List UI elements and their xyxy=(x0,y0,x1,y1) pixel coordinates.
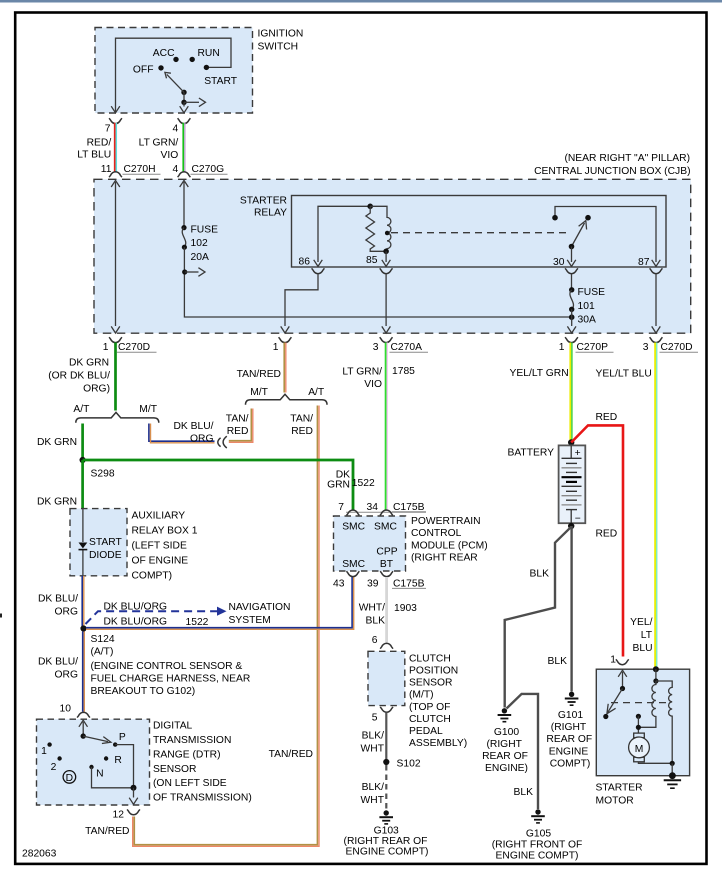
connector C270P exit xyxy=(565,337,578,342)
svg-text:WHT/: WHT/ xyxy=(359,603,385,614)
node solenoid contact xyxy=(620,686,625,691)
wire through aux box xyxy=(82,509,84,576)
inductor relay coil winding xyxy=(370,206,391,251)
svg-text:1522: 1522 xyxy=(186,617,209,628)
svg-text:SENSOR: SENSOR xyxy=(409,678,453,689)
svg-text:IGNITION: IGNITION xyxy=(258,29,304,40)
svg-text:ENGINE COMPT): ENGINE COMPT) xyxy=(346,846,429,857)
svg-text:(ENGINE CONTROL SENSOR &: (ENGINE CONTROL SENSOR & xyxy=(91,661,243,672)
wire DK GRN C270D to brace xyxy=(114,343,117,411)
node battery positive xyxy=(568,439,574,445)
svg-text:RED: RED xyxy=(227,426,249,437)
svg-text:1: 1 xyxy=(103,342,109,353)
svg-text:(LEFT SIDE: (LEFT SIDE xyxy=(132,541,187,552)
wire relay 85 to CJB exit xyxy=(385,274,387,326)
svg-text:C270A: C270A xyxy=(391,342,423,353)
dashed wire to navigation system xyxy=(86,611,218,624)
svg-text:AUXILIARY: AUXILIARY xyxy=(132,510,186,521)
svg-text:TAN/: TAN/ xyxy=(226,413,249,424)
svg-text:STARTER: STARTER xyxy=(240,196,287,207)
wire motor to ground bus xyxy=(638,762,672,764)
node relay fixed contact xyxy=(552,215,558,221)
svg-text:OFF: OFF xyxy=(133,64,154,75)
svg-text:DK BLU/ORG: DK BLU/ORG xyxy=(104,602,168,613)
svg-text:FUSE: FUSE xyxy=(578,287,606,298)
node DTR 2 contact xyxy=(57,756,61,760)
svg-text:101: 101 xyxy=(578,301,595,312)
svg-text:CPP: CPP xyxy=(376,547,397,558)
ground starter case xyxy=(669,772,676,779)
brace A/T-M/T split left xyxy=(76,412,159,422)
wire YEL/LT BLU C270D to starter motor xyxy=(655,343,657,669)
PCM box xyxy=(346,511,426,513)
svg-text:VIO: VIO xyxy=(364,379,382,390)
wire fuse 102 output xyxy=(184,247,571,317)
svg-text:DK BLU/: DK BLU/ xyxy=(38,594,78,605)
wire relay pin 30 xyxy=(571,247,573,263)
svg-text:3: 3 xyxy=(373,342,379,353)
svg-text:ORG): ORG) xyxy=(83,383,110,394)
node battery negative xyxy=(568,523,574,529)
svg-text:ENGINE): ENGINE) xyxy=(485,763,528,774)
svg-text:DK GRN: DK GRN xyxy=(37,497,77,508)
svg-text:1: 1 xyxy=(559,342,565,353)
relay switch lever xyxy=(572,223,585,247)
svg-text:12: 12 xyxy=(113,810,125,821)
svg-text:C175B: C175B xyxy=(393,502,425,513)
wire BLK battery to G100 xyxy=(505,527,572,708)
svg-text:1903: 1903 xyxy=(394,603,417,614)
svg-text:(TOP OF: (TOP OF xyxy=(409,702,450,713)
svg-text:DIGITAL: DIGITAL xyxy=(153,721,193,732)
wire RED/LT BLU ignition to CJB xyxy=(115,123,117,172)
svg-text:A/T: A/T xyxy=(73,404,90,415)
svg-text:BT: BT xyxy=(380,559,394,570)
svg-text:STARTER: STARTER xyxy=(596,782,643,793)
wire LT GRN/VIO C270A to PCM pin 34 xyxy=(386,343,388,511)
svg-text:SWITCH: SWITCH xyxy=(258,42,299,53)
wire ignition exit pin 7 xyxy=(183,102,185,106)
svg-text:RED: RED xyxy=(291,426,313,437)
svg-text:LT BLU: LT BLU xyxy=(77,149,111,160)
inductor pull-in winding xyxy=(639,681,656,727)
svg-text:(RIGHT: (RIGHT xyxy=(486,739,522,750)
wire RED battery to starter pin 1 xyxy=(571,425,623,656)
ground G100 xyxy=(498,708,512,722)
wire DK GRN S298 down xyxy=(81,460,84,509)
fuse F102 xyxy=(181,225,186,230)
svg-text:D: D xyxy=(66,773,73,784)
wire DK BLU/ORG M/T branch xyxy=(149,424,215,443)
wire DTR entry xyxy=(79,720,88,727)
wire TAN/RED A/T branch to DTR pin 12 xyxy=(133,406,319,847)
connector cup below ignition pin 4 xyxy=(178,118,191,123)
node motor terminal xyxy=(636,714,641,719)
svg-text:REAR OF: REAR OF xyxy=(546,734,592,745)
svg-text:(RIGHT REAR: (RIGHT REAR xyxy=(411,553,478,564)
svg-text:C270H: C270H xyxy=(124,164,156,175)
svg-text:LT GRN/: LT GRN/ xyxy=(342,366,382,377)
svg-text:DK BLU/ORG: DK BLU/ORG xyxy=(104,617,168,628)
svg-text:1522: 1522 xyxy=(352,478,375,489)
wire DK BLU/ORG S124 to PCM pin 43 xyxy=(86,576,354,629)
svg-text:BLK: BLK xyxy=(514,787,534,798)
svg-text:G103: G103 xyxy=(374,825,399,836)
wire DK BLU/ORG S124 to DTR pin 10 xyxy=(83,632,85,712)
svg-text:(RIGHT FRONT OF: (RIGHT FRONT OF xyxy=(492,839,583,850)
svg-text:SMC: SMC xyxy=(342,522,365,533)
svg-text:DK GRN: DK GRN xyxy=(69,357,109,368)
svg-text:34: 34 xyxy=(367,502,379,513)
ground G103 xyxy=(379,810,393,824)
svg-text:VIO: VIO xyxy=(161,150,179,161)
svg-text:RED: RED xyxy=(596,412,618,423)
wire relay pin 85 xyxy=(385,251,387,262)
node DTR D contact circled xyxy=(63,771,76,784)
node S102 xyxy=(383,759,389,765)
svg-text:(NEAR RIGHT "A" PILLAR): (NEAR RIGHT "A" PILLAR) xyxy=(564,153,690,164)
svg-text:RELAY: RELAY xyxy=(254,208,287,219)
wire DTR N to output xyxy=(92,767,134,788)
svg-text:WHT: WHT xyxy=(361,795,385,806)
svg-text:M/T: M/T xyxy=(250,387,268,398)
svg-text:30: 30 xyxy=(553,257,565,268)
svg-text:ENGINE COMPT): ENGINE COMPT) xyxy=(496,850,579,861)
svg-text:+: + xyxy=(575,448,581,459)
svg-text:20A: 20A xyxy=(191,252,209,263)
node ACC contact xyxy=(173,57,178,62)
svg-text:RUN: RUN xyxy=(198,48,220,59)
svg-text:(M/T): (M/T) xyxy=(409,690,434,701)
svg-text:BLK/: BLK/ xyxy=(362,731,384,742)
solenoid switch lever xyxy=(608,689,623,713)
svg-text:10: 10 xyxy=(60,704,72,715)
ignition switch lever SW1 xyxy=(181,90,186,95)
svg-text:DK GRN: DK GRN xyxy=(37,437,77,448)
connector C270A exit xyxy=(380,337,393,342)
wire lever common xyxy=(183,92,185,102)
svg-text:11: 11 xyxy=(101,164,112,175)
node fuse101 junction xyxy=(569,314,575,320)
svg-text:(ON LEFT SIDE: (ON LEFT SIDE xyxy=(153,778,227,789)
svg-text:ORG: ORG xyxy=(55,670,78,681)
svg-text:TAN/RED: TAN/RED xyxy=(237,369,281,380)
svg-text:C270P: C270P xyxy=(577,342,609,353)
wire relay 86 to CJB exit xyxy=(285,274,318,326)
svg-text:MOTOR: MOTOR xyxy=(596,795,634,806)
wire solenoid feed xyxy=(655,669,657,681)
wire CJB entry from C270H xyxy=(111,180,120,187)
ground G101 xyxy=(565,692,579,706)
node START contact xyxy=(204,65,209,70)
svg-text:39: 39 xyxy=(367,578,379,589)
wire relay 87 to CJB exit xyxy=(655,274,657,326)
svg-text:1: 1 xyxy=(273,342,279,353)
svg-text:43: 43 xyxy=(333,578,345,589)
connector C270D right exit xyxy=(650,337,663,342)
battery xyxy=(559,445,586,523)
DTR sensor box xyxy=(37,719,150,805)
svg-text:G100: G100 xyxy=(494,727,519,738)
motor M1 xyxy=(629,737,650,758)
node solenoid feed on box edge xyxy=(653,666,659,672)
svg-text:POWERTRAIN: POWERTRAIN xyxy=(411,516,481,527)
node RUN contact xyxy=(190,57,195,62)
svg-text:S298: S298 xyxy=(91,468,115,479)
svg-text:1: 1 xyxy=(610,655,616,666)
inductor hold-in winding xyxy=(656,681,672,763)
wire LT GRN/VIO ignition to CJB xyxy=(183,123,185,172)
top blue bar xyxy=(0,0,722,3)
svg-text:POSITION: POSITION xyxy=(409,666,458,677)
node S124 xyxy=(80,625,86,631)
svg-text:7: 7 xyxy=(338,502,344,513)
svg-text:CLUTCH: CLUTCH xyxy=(409,653,451,664)
connector C270D left exit xyxy=(109,337,122,342)
wire relay pin 86 riser xyxy=(318,206,370,262)
svg-text:OF TRANSMISSION): OF TRANSMISSION) xyxy=(153,793,252,804)
svg-text:C270D: C270D xyxy=(661,342,693,353)
svg-text:SENSOR: SENSOR xyxy=(153,764,197,775)
svg-text:(RIGHT: (RIGHT xyxy=(551,722,587,733)
connector exit 1 (tan) xyxy=(279,337,292,342)
wire TAN/RED exit 1 to brace xyxy=(284,343,286,393)
svg-text:DIODE: DIODE xyxy=(89,550,122,561)
svg-text:RANGE (DTR): RANGE (DTR) xyxy=(153,749,221,760)
svg-text:PEDAL: PEDAL xyxy=(409,726,443,737)
node DTR pivot xyxy=(81,733,86,738)
svg-text:REAR OF: REAR OF xyxy=(482,751,528,762)
wire relay 30 to fuse 101 xyxy=(571,274,573,289)
central junction box CJB xyxy=(94,179,691,333)
svg-text:WHT: WHT xyxy=(361,744,385,755)
node OFF contact xyxy=(158,65,163,70)
svg-text:COMPT): COMPT) xyxy=(132,571,173,582)
svg-text:G105: G105 xyxy=(526,828,551,839)
svg-text:2: 2 xyxy=(51,762,57,773)
svg-text:C270G: C270G xyxy=(192,164,225,175)
starter motor box xyxy=(596,669,689,776)
svg-text:ASSEMBLY): ASSEMBLY) xyxy=(409,738,467,749)
svg-text:(A/T): (A/T) xyxy=(91,646,114,657)
svg-text:P: P xyxy=(119,732,126,743)
node relay moving contact xyxy=(585,215,591,221)
svg-text:A/T: A/T xyxy=(308,387,325,398)
svg-text:BLK: BLK xyxy=(530,569,550,580)
svg-text:START: START xyxy=(89,537,123,548)
svg-text:LT: LT xyxy=(641,630,653,641)
wire WHT/BLK PCM 39 to clutch sensor xyxy=(385,577,388,642)
connector cups below relay pins xyxy=(312,268,325,273)
svg-text:G101: G101 xyxy=(558,710,583,721)
wire relay contact 87 feed xyxy=(555,207,656,263)
wire DTR exit pin 12 xyxy=(133,788,135,798)
connector cup below ignition pin 7 xyxy=(109,118,122,123)
svg-text:BLK: BLK xyxy=(548,656,568,667)
svg-text:3: 3 xyxy=(643,342,649,353)
svg-text:BLK/: BLK/ xyxy=(362,782,384,793)
svg-text:DK BLU/: DK BLU/ xyxy=(38,657,78,668)
wire BLK/WHT clutch to S102 xyxy=(385,713,387,763)
node relay coil top xyxy=(367,204,373,210)
node DTR P contact xyxy=(113,742,117,746)
motor M1 brushes xyxy=(634,733,645,738)
wire TAN/RED M/T link xyxy=(229,409,253,443)
svg-text:NAVIGATION: NAVIGATION xyxy=(229,602,291,613)
svg-text:MODULE (PCM): MODULE (PCM) xyxy=(411,541,488,552)
svg-text:TAN/RED: TAN/RED xyxy=(85,826,129,837)
svg-text:5: 5 xyxy=(372,712,378,723)
svg-text:TAN/RED: TAN/RED xyxy=(269,749,313,760)
svg-text:4: 4 xyxy=(172,164,178,175)
wire DK GRN A/T branch xyxy=(81,424,84,461)
svg-text:282063: 282063 xyxy=(22,849,57,860)
svg-text:(OR DK BLU/: (OR DK BLU/ xyxy=(48,370,110,381)
svg-text:4: 4 xyxy=(172,124,178,135)
mechanical link dashed starter xyxy=(611,702,670,704)
svg-text:RELAY BOX 1: RELAY BOX 1 xyxy=(132,526,198,537)
svg-text:102: 102 xyxy=(191,238,208,249)
wire YEL/LT GRN C270P to battery xyxy=(570,343,572,442)
svg-text:OF ENGINE: OF ENGINE xyxy=(132,556,189,567)
svg-text:CONTROL: CONTROL xyxy=(411,528,462,539)
resistor relay coil (zigzag) xyxy=(366,206,386,251)
svg-text:30A: 30A xyxy=(578,314,596,325)
wire BLK branch to G105 xyxy=(507,694,539,809)
svg-text:CENTRAL JUNCTION BOX (CJB): CENTRAL JUNCTION BOX (CJB) xyxy=(534,166,690,177)
left edge tick xyxy=(0,614,2,618)
svg-text:BLK: BLK xyxy=(366,616,386,627)
wire BLK/WHT S102 to G103 dashed xyxy=(385,765,387,810)
svg-text:YEL/: YEL/ xyxy=(630,617,652,628)
svg-text:GRN: GRN xyxy=(327,479,350,490)
svg-text:ACC: ACC xyxy=(153,48,175,59)
auxiliary relay box 1 xyxy=(70,509,127,576)
svg-text:START: START xyxy=(204,76,238,87)
node fuse102 tap with arrow xyxy=(182,269,187,274)
svg-text:FUEL CHARGE HARNESS, NEAR: FUEL CHARGE HARNESS, NEAR xyxy=(91,674,251,685)
svg-text:TAN/: TAN/ xyxy=(290,413,313,424)
node DTR R contact xyxy=(104,756,108,760)
svg-text:(RIGHT REAR OF: (RIGHT REAR OF xyxy=(344,836,428,847)
svg-text:7: 7 xyxy=(105,124,111,135)
node winding junction xyxy=(636,725,641,730)
clutch position sensor box xyxy=(368,651,405,705)
node coil link xyxy=(385,231,390,236)
wire DTR P to output xyxy=(115,745,133,788)
svg-text:N: N xyxy=(96,768,103,779)
node solenoid lever end xyxy=(603,714,608,719)
svg-text:M: M xyxy=(635,744,644,755)
svg-text:C270D: C270D xyxy=(118,342,150,353)
svg-text:SYSTEM: SYSTEM xyxy=(229,615,271,626)
svg-text:R: R xyxy=(114,755,121,766)
svg-text:S102: S102 xyxy=(397,759,421,770)
fuse F101 xyxy=(569,287,574,292)
ground G105 xyxy=(531,809,545,823)
wire BLK battery to G101 xyxy=(570,526,572,692)
brace M/T-A/T split right xyxy=(246,394,328,404)
svg-text:ORG: ORG xyxy=(55,607,78,618)
svg-text:CLUTCH: CLUTCH xyxy=(409,714,451,725)
node DTR N contact xyxy=(89,765,93,769)
svg-text:S124: S124 xyxy=(91,634,115,645)
svg-text:1: 1 xyxy=(41,746,47,757)
svg-text:SMC: SMC xyxy=(374,522,397,533)
wire fuse101 to CJB exit xyxy=(571,309,573,326)
inline break connector (( xyxy=(218,436,227,448)
svg-text:C175B: C175B xyxy=(393,578,425,589)
svg-text:BREAKOUT TO G102): BREAKOUT TO G102) xyxy=(91,686,196,697)
node DTR 1 contact xyxy=(47,742,51,746)
svg-text:FUSE: FUSE xyxy=(191,224,219,235)
svg-text:85: 85 xyxy=(366,255,378,266)
wire DK BLU/ORG aux box to S124 xyxy=(82,576,84,626)
wire starter pin 1 entry xyxy=(618,670,627,677)
diode start diode xyxy=(79,543,88,549)
wire DK GRN S298 to PCM pin 7 xyxy=(83,460,353,510)
svg-text:COMPT): COMPT) xyxy=(550,759,591,770)
svg-text:BLU: BLU xyxy=(632,643,652,654)
wire branch arrow to accessory xyxy=(184,101,199,103)
svg-text:86: 86 xyxy=(299,257,311,268)
svg-text:6: 6 xyxy=(372,635,378,646)
starter relay box xyxy=(292,196,667,268)
svg-text:LT GRN/: LT GRN/ xyxy=(139,138,179,149)
svg-text:1785: 1785 xyxy=(392,366,415,377)
svg-text:ENGINE: ENGINE xyxy=(549,746,589,757)
wire CJB entry from C270G xyxy=(180,180,189,187)
svg-text:BATTERY: BATTERY xyxy=(507,447,554,458)
node S298 xyxy=(80,457,86,463)
svg-text:ORG: ORG xyxy=(190,434,213,445)
svg-text:87: 87 xyxy=(638,257,650,268)
svg-text:TRANSMISSION: TRANSMISSION xyxy=(153,735,231,746)
svg-text:DK BLU/: DK BLU/ xyxy=(173,421,213,432)
svg-text:RED: RED xyxy=(596,529,618,540)
node relay coil bottom xyxy=(383,249,389,255)
svg-text:YEL/LT BLU: YEL/LT BLU xyxy=(596,369,652,380)
svg-text:RED/: RED/ xyxy=(87,138,112,149)
node DTR output junction xyxy=(131,785,137,791)
DTR selector lever xyxy=(83,736,108,742)
svg-text:M/T: M/T xyxy=(139,404,157,415)
svg-text:SMC: SMC xyxy=(342,559,365,570)
wire ignition internal feed xyxy=(116,38,232,111)
ignition switch box xyxy=(95,28,253,114)
svg-text:−: − xyxy=(575,514,581,525)
svg-text:YEL/LT GRN: YEL/LT GRN xyxy=(510,368,569,379)
mechanical link dashed xyxy=(391,232,566,234)
